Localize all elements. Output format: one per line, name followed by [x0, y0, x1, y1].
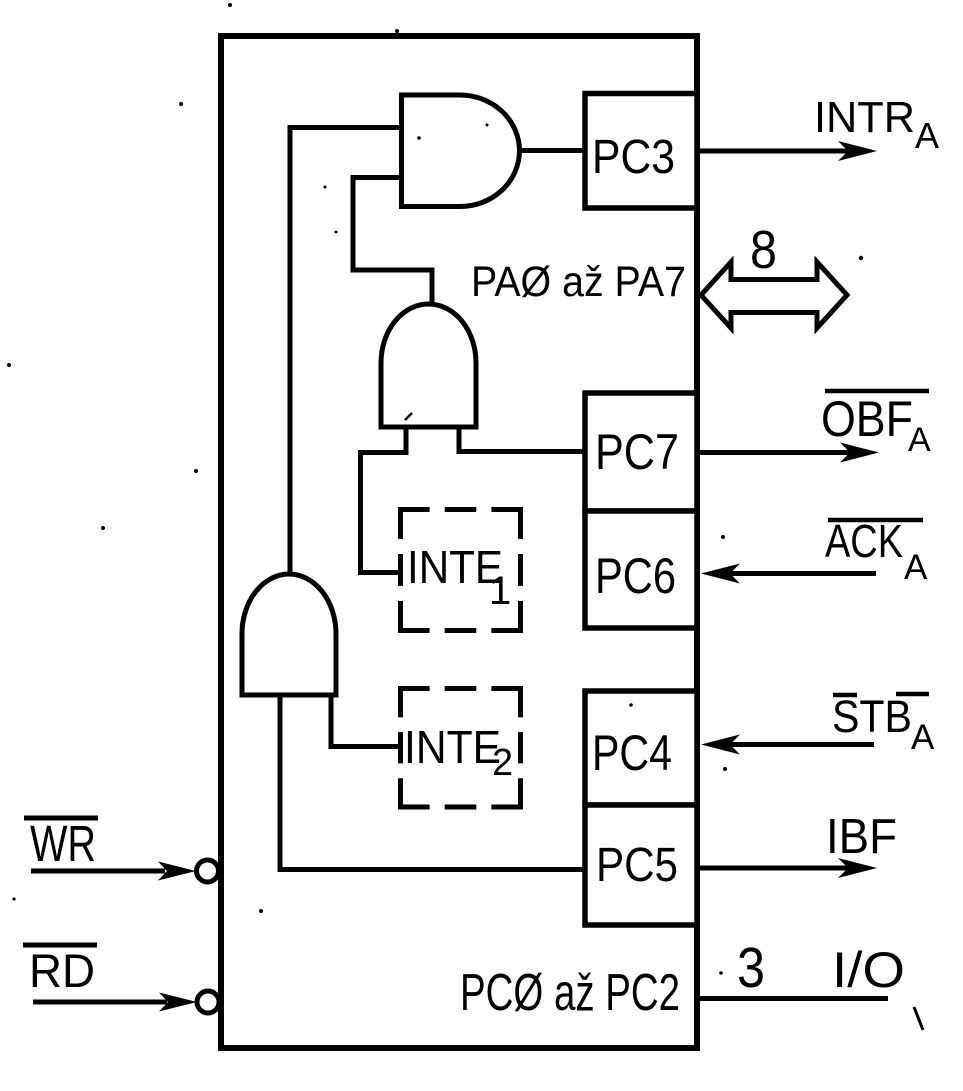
svg-text:PC4: PC4: [592, 725, 672, 781]
svg-text:PC6: PC6: [595, 548, 676, 604]
svg-text:INTR: INTR: [814, 93, 915, 142]
svg-text:RD: RD: [29, 944, 95, 997]
svg-text:IBF: IBF: [826, 810, 897, 864]
svg-text:3: 3: [737, 936, 765, 1000]
svg-text:INTE: INTE: [404, 721, 501, 773]
svg-text:STB: STB: [832, 691, 912, 742]
svg-text:1: 1: [489, 569, 511, 613]
svg-text:OBF: OBF: [821, 391, 913, 447]
svg-text:ACK: ACK: [825, 515, 903, 567]
svg-text:A: A: [908, 421, 931, 459]
svg-text:WR: WR: [30, 815, 96, 872]
svg-text:I/O: I/O: [832, 942, 905, 998]
svg-text:8: 8: [750, 220, 777, 280]
svg-text:A: A: [904, 548, 928, 587]
svg-text:2: 2: [492, 742, 513, 784]
svg-text:PCØ až PC2: PCØ až PC2: [460, 964, 680, 1022]
svg-text:PC3: PC3: [592, 131, 675, 184]
svg-text:PAØ až PA7: PAØ až PA7: [471, 258, 686, 306]
svg-text:PC7: PC7: [595, 424, 679, 480]
svg-text:A: A: [911, 718, 935, 757]
svg-text:PC5: PC5: [596, 839, 678, 892]
svg-text:A: A: [915, 115, 939, 156]
